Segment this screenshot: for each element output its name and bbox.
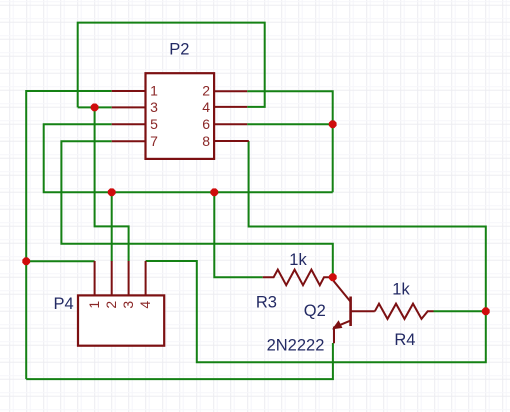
svg-text:P4: P4 — [54, 295, 74, 313]
svg-text:2N2222: 2N2222 — [267, 336, 325, 354]
resistor R3 — [263, 270, 333, 286]
wire P2 pin8 to right rail — [146, 141, 486, 362]
wire P2 pin1 to left rail — [26, 91, 112, 379]
pin 4 stub — [145, 261, 147, 295]
svg-text:4: 4 — [137, 301, 153, 309]
pin 3 — [112, 106, 146, 108]
svg-text:6: 6 — [202, 116, 210, 132]
emitter arrow — [332, 320, 342, 329]
wire P4 pin2 vertical — [111, 192, 113, 261]
svg-text:5: 5 — [150, 116, 158, 132]
junction dot P4 pin2 on rail — [108, 188, 116, 196]
transistor Q2 — [332, 277, 375, 343]
svg-text:1k: 1k — [392, 281, 410, 299]
pin 3 stub — [128, 261, 130, 295]
svg-text:2: 2 — [202, 83, 210, 99]
wire jog from top box to pin3 — [78, 106, 112, 108]
wire P2 pin6 stub to vertical — [247, 123, 333, 125]
wire P2 pin2 to pin6 vertical — [247, 91, 333, 192]
svg-text:1: 1 — [86, 301, 102, 309]
wire junction A down to P4 pin3 jog — [95, 107, 129, 261]
svg-text:3: 3 — [120, 301, 136, 309]
svg-text:8: 8 — [202, 133, 210, 149]
connector P4 — [78, 261, 164, 346]
pin 7 — [112, 140, 146, 142]
svg-text:1k: 1k — [289, 251, 307, 269]
junction dot left rail / P4 pin1 — [22, 257, 30, 265]
svg-text:2: 2 — [103, 301, 119, 309]
pin 2 — [214, 90, 247, 92]
wire R4 right — [434, 310, 486, 312]
wire bottom emitter rail — [26, 343, 333, 379]
junction dot R4 right — [482, 307, 490, 315]
pin 6 — [214, 123, 247, 125]
pin 4 — [214, 106, 247, 108]
svg-text:3: 3 — [150, 99, 158, 115]
wire top box horizontal (pin3/pin4 net) — [78, 23, 265, 108]
junction dot R3 right / collector — [329, 273, 337, 281]
wire P4 pin1 to left rail dot — [26, 260, 94, 262]
connector P2 — [112, 73, 249, 159]
wire R3 left to pin5 rail — [214, 192, 262, 277]
junction dot pin6 — [329, 120, 337, 128]
wire P2 pin5 rail — [44, 124, 333, 192]
junction dot A (pin3 net) — [91, 104, 99, 112]
svg-text:1: 1 — [150, 83, 158, 99]
pin 8 — [214, 140, 249, 142]
svg-text:4: 4 — [202, 99, 210, 115]
pin 2 stub — [111, 261, 113, 295]
pin 1 stub — [94, 261, 96, 295]
svg-text:Q2: Q2 — [304, 302, 326, 320]
svg-text:R3: R3 — [256, 293, 277, 311]
emitter lead — [334, 321, 351, 344]
svg-text:P2: P2 — [169, 40, 189, 58]
junction dot R3 left on rail — [210, 188, 218, 196]
pin 5 — [112, 123, 146, 125]
svg-text:7: 7 — [150, 133, 158, 149]
wire P2 pin7 long rail — [61, 141, 332, 277]
collector lead — [333, 277, 351, 302]
svg-text:R4: R4 — [394, 331, 415, 349]
resistor R4 — [375, 304, 434, 319]
base lead to R4 — [351, 310, 375, 312]
pin 1 — [112, 90, 146, 92]
base bar — [349, 297, 352, 327]
